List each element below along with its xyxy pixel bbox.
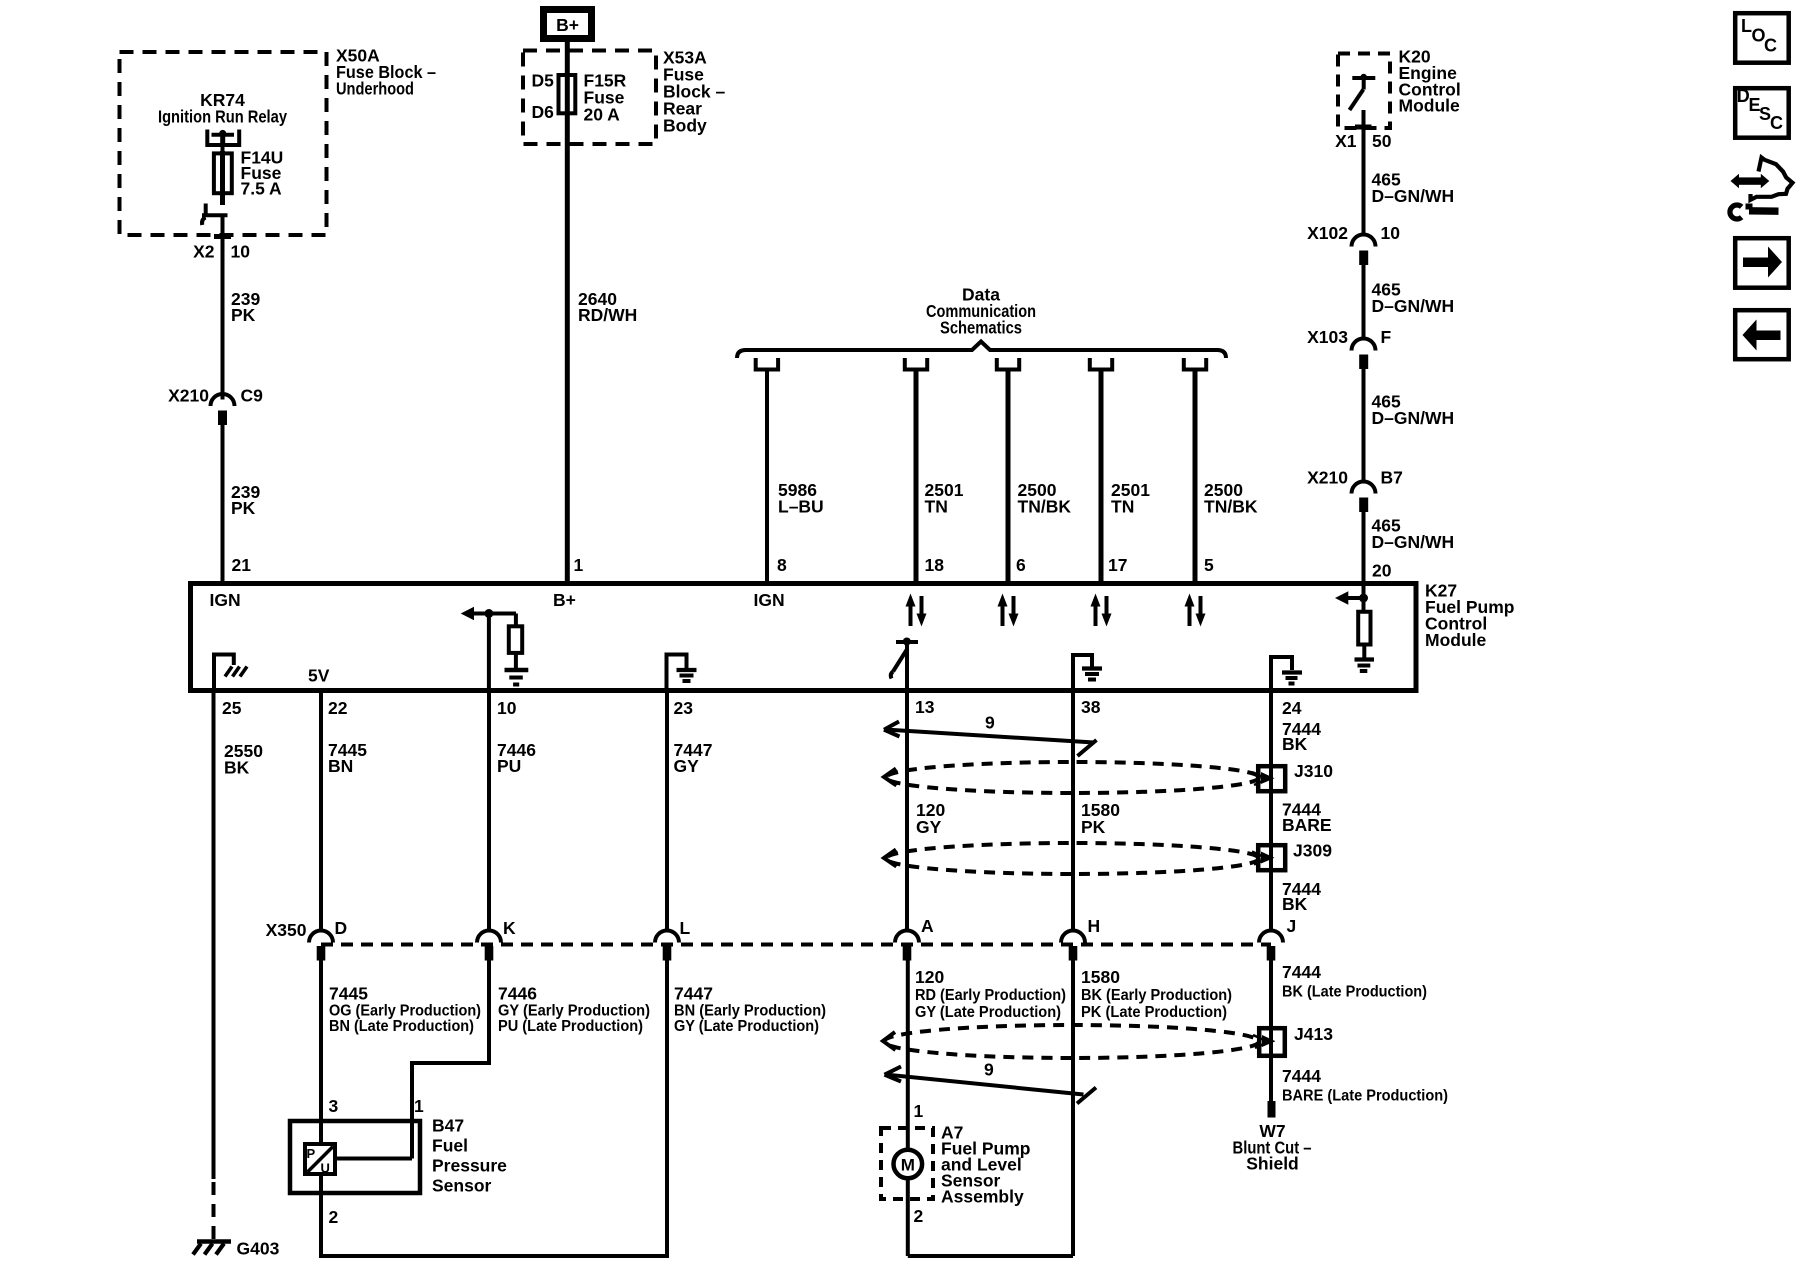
svg-text:9: 9 bbox=[984, 1060, 994, 1080]
relay KR74 contact (staple + armature) bbox=[207, 130, 239, 146]
wire L down to bottom joint bbox=[665, 961, 669, 1259]
svg-text:PK (Late Production): PK (Late Production) bbox=[1081, 1004, 1227, 1021]
fuse block X50A (dashed box) bbox=[120, 52, 327, 235]
label X50A Fuse Block - Underhood bbox=[336, 46, 436, 99]
svg-text:X2: X2 bbox=[193, 242, 215, 262]
svg-text:Module: Module bbox=[1425, 630, 1487, 650]
connector X350 pin L bbox=[655, 918, 691, 961]
connector X1 tick bbox=[1355, 125, 1372, 130]
svg-text:Underhood: Underhood bbox=[336, 79, 414, 99]
fuel pump assembly A7 dashed box bbox=[881, 1128, 933, 1199]
svg-text:25: 25 bbox=[222, 698, 242, 718]
label 1580 PK bbox=[1081, 800, 1120, 837]
label 2501 TN (second) bbox=[1111, 480, 1150, 517]
twisted pair loop to J309 bbox=[886, 843, 1259, 874]
svg-text:U: U bbox=[321, 1161, 330, 1176]
internal ground pin 23 bbox=[667, 655, 697, 691]
label 7444 BK (upper) bbox=[1282, 719, 1321, 754]
bus tap header pin 18 bbox=[905, 358, 927, 370]
svg-text:J: J bbox=[1287, 916, 1297, 936]
wire 2640 RD/WH bbox=[565, 42, 570, 583]
splice J309 bbox=[1252, 841, 1332, 871]
label 2550 BK bbox=[224, 741, 263, 778]
svg-text:BK: BK bbox=[1282, 894, 1308, 914]
connector X350 dashed line bbox=[321, 943, 1271, 947]
internal switch pin 13 bbox=[891, 638, 918, 691]
wire 7444 BK (pin 24) bbox=[1269, 693, 1273, 766]
wire 2500 TN/BK (pin 6) bbox=[1006, 370, 1011, 584]
svg-text:B+: B+ bbox=[553, 590, 576, 610]
svg-text:A: A bbox=[921, 916, 934, 936]
svg-text:B+: B+ bbox=[556, 15, 579, 35]
svg-text:Pressure: Pressure bbox=[432, 1156, 507, 1176]
label 7445 OG/BN production bbox=[329, 984, 481, 1036]
wire K jog to B47 pin 1 bbox=[412, 961, 489, 1122]
icon prev-page box (left arrow) bbox=[1735, 310, 1789, 359]
wire 7446 PU (pin 10) bbox=[487, 693, 491, 930]
wire through J413 bbox=[1269, 1028, 1273, 1058]
twisted pair left arrow (J310 loop) bbox=[884, 769, 897, 786]
svg-text:OG (Early Production): OG (Early Production) bbox=[329, 1003, 481, 1020]
fuse block X53A (dashed box) bbox=[523, 51, 656, 145]
switch contact of relay bbox=[202, 204, 228, 226]
svg-text:PK: PK bbox=[231, 305, 256, 325]
svg-text:10: 10 bbox=[497, 698, 517, 718]
svg-text:M: M bbox=[901, 1156, 915, 1175]
svg-text:7444: 7444 bbox=[1282, 1066, 1321, 1086]
internal wire B47 pin 1 bbox=[335, 1121, 412, 1159]
wire J below X350 bbox=[1269, 961, 1273, 1029]
wire 465 D-GN/WH segment 1 bbox=[1362, 110, 1366, 234]
svg-text:TN: TN bbox=[925, 497, 948, 517]
svg-text:L–BU: L–BU bbox=[778, 497, 824, 517]
svg-text:K: K bbox=[503, 918, 516, 938]
svg-text:H: H bbox=[1088, 916, 1101, 936]
svg-text:P: P bbox=[307, 1146, 316, 1161]
label 239 PK (lower) bbox=[231, 482, 260, 518]
wire J to blunt cut bbox=[1269, 1056, 1273, 1101]
label X53A Fuse Block - Rear Body bbox=[663, 48, 726, 136]
internal ground pin 24 bbox=[1271, 657, 1302, 690]
svg-text:18: 18 bbox=[925, 555, 945, 575]
connector X102 pin 10 bbox=[1307, 223, 1400, 265]
svg-text:2: 2 bbox=[914, 1206, 924, 1226]
svg-text:RD/WH: RD/WH bbox=[578, 305, 637, 325]
svg-text:BK: BK bbox=[1282, 734, 1308, 754]
svg-text:F: F bbox=[1381, 327, 1392, 347]
wire through J310 bbox=[1269, 766, 1273, 793]
svg-text:1: 1 bbox=[574, 555, 584, 575]
svg-text:BARE (Late Production): BARE (Late Production) bbox=[1282, 1088, 1448, 1105]
label A7 Fuel Pump and Level Sensor Assembly bbox=[941, 1123, 1030, 1207]
label B47 Fuel Pressure Sensor bbox=[432, 1116, 507, 1196]
svg-text:D6: D6 bbox=[532, 102, 555, 122]
icon vehicle outline bbox=[1751, 158, 1793, 200]
svg-text:J309: J309 bbox=[1293, 841, 1332, 861]
wire A to pump bbox=[906, 961, 910, 1151]
label 465 D-GN/WH (2) bbox=[1372, 280, 1455, 317]
bus tap header pin 17 bbox=[1090, 358, 1112, 370]
label 5986 L-BU bbox=[778, 480, 824, 517]
svg-text:Ignition Run Relay: Ignition Run Relay bbox=[158, 107, 287, 127]
twist symbol 9 (lower) bbox=[885, 1060, 1097, 1104]
wire 465 D-GN/WH segment 4 bbox=[1362, 512, 1366, 583]
label F15R Fuse 20 A bbox=[584, 71, 627, 125]
label K27 Fuel Pump Control Module bbox=[1425, 581, 1514, 651]
svg-text:C: C bbox=[1770, 113, 1783, 133]
label 2500 TN/BK bbox=[1018, 480, 1072, 517]
battery feed B+ box bbox=[544, 10, 592, 39]
bottom wire pump to wire H bbox=[908, 1254, 1073, 1258]
svg-text:PU (Late Production): PU (Late Production) bbox=[498, 1018, 643, 1035]
svg-text:J413: J413 bbox=[1294, 1024, 1333, 1044]
label Data Communication Schematics bbox=[926, 285, 1036, 338]
internal driver circuit pins 1/10 (arrow, resistor, ground) bbox=[461, 607, 529, 690]
svg-text:22: 22 bbox=[328, 698, 348, 718]
connector X210 pin B7 bbox=[1307, 468, 1403, 513]
svg-text:B7: B7 bbox=[1381, 468, 1403, 488]
twisted pair loop to J413 bbox=[884, 1025, 1259, 1058]
svg-text:GY: GY bbox=[674, 756, 700, 776]
svg-text:7446: 7446 bbox=[498, 984, 537, 1004]
wire 2501 TN (pin 18) bbox=[914, 370, 919, 584]
ECM driver symbol bbox=[1350, 74, 1376, 110]
twisted pair left arrow (J309 loop) bbox=[884, 850, 897, 867]
svg-text:D–GN/WH: D–GN/WH bbox=[1372, 186, 1455, 206]
svg-text:GY (Late Production): GY (Late Production) bbox=[674, 1018, 819, 1035]
svg-text:23: 23 bbox=[674, 698, 694, 718]
internal chassis ground pin 25 bbox=[214, 655, 247, 691]
svg-text:PK: PK bbox=[231, 498, 256, 518]
label 2501 TN bbox=[925, 480, 964, 517]
label 120 GY bbox=[916, 800, 945, 837]
svg-text:D: D bbox=[335, 918, 348, 938]
svg-text:D–GN/WH: D–GN/WH bbox=[1372, 296, 1455, 316]
svg-text:BN: BN bbox=[328, 756, 353, 776]
connector X350 pin H bbox=[1061, 916, 1100, 961]
ground G403 bbox=[193, 1239, 280, 1259]
fuel pressure sensor B47 box bbox=[290, 1121, 420, 1193]
icon LOC box bbox=[1735, 13, 1789, 63]
svg-text:PU: PU bbox=[497, 756, 521, 776]
svg-text:X102: X102 bbox=[1307, 223, 1348, 243]
label 7444 BK (Late Production) bbox=[1282, 962, 1427, 1001]
svg-text:IGN: IGN bbox=[210, 590, 241, 610]
svg-text:PK: PK bbox=[1081, 817, 1106, 837]
data bus brace bbox=[737, 342, 1226, 359]
bus tap header pin 6 bbox=[997, 358, 1019, 370]
svg-text:GY (Early Production): GY (Early Production) bbox=[498, 1003, 650, 1020]
svg-text:24: 24 bbox=[1282, 698, 1302, 718]
svg-text:10: 10 bbox=[1381, 223, 1401, 243]
svg-text:20: 20 bbox=[1372, 561, 1392, 581]
wire A7 pin 2 bbox=[906, 1179, 910, 1257]
svg-text:BK (Early Production): BK (Early Production) bbox=[1081, 987, 1232, 1004]
svg-text:8: 8 bbox=[777, 555, 787, 575]
engine control module K20 (dashed box) bbox=[1338, 54, 1390, 129]
wire H down bbox=[1071, 961, 1075, 1257]
label 1580 BK/PK production bbox=[1081, 967, 1232, 1021]
label 7446 GY/PU production bbox=[498, 984, 650, 1036]
label 7444 BARE (Late Production) bbox=[1282, 1066, 1448, 1105]
connector X210 C9 bbox=[168, 386, 263, 426]
label 7447 BN/GY production bbox=[674, 984, 826, 1036]
wire 465 D-GN/WH segment 2 bbox=[1362, 265, 1366, 338]
wire 7447 GY (pin 23) bbox=[665, 693, 669, 930]
pump motor M bbox=[894, 1150, 923, 1179]
bus tap header pin 5 bbox=[1184, 358, 1206, 370]
svg-text:7444: 7444 bbox=[1282, 962, 1321, 982]
labels D5 D6 bbox=[532, 71, 555, 123]
svg-text:D–GN/WH: D–GN/WH bbox=[1372, 408, 1455, 428]
svg-text:50: 50 bbox=[1372, 131, 1392, 151]
fuse F14U (rect with wire through) bbox=[214, 151, 232, 205]
sensor P/U symbol bbox=[305, 1144, 335, 1176]
svg-text:Module: Module bbox=[1399, 96, 1461, 116]
wire 120 GY (pin 13) bbox=[905, 693, 909, 930]
svg-text:Fuel: Fuel bbox=[432, 1136, 468, 1156]
svg-text:9: 9 bbox=[985, 713, 995, 733]
svg-text:TN/BK: TN/BK bbox=[1204, 497, 1258, 517]
svg-text:21: 21 bbox=[232, 555, 252, 575]
wire 239 PK lower segment bbox=[221, 425, 225, 583]
wire fuse to X2 bbox=[221, 215, 225, 240]
label 7444 BK (below J309) bbox=[1282, 879, 1321, 914]
wire J309 to X350 bbox=[1269, 874, 1273, 930]
internal ground pin 38 bbox=[1073, 655, 1102, 690]
label 7445 BN bbox=[328, 740, 367, 776]
connector X350 pin A bbox=[895, 916, 934, 961]
connector X103 pin F bbox=[1307, 327, 1391, 369]
icon DESC box bbox=[1735, 86, 1789, 138]
fuse F15R (rect) bbox=[559, 75, 576, 113]
svg-text:1580: 1580 bbox=[1081, 967, 1120, 987]
svg-text:20 A: 20 A bbox=[584, 105, 621, 125]
svg-text:IGN: IGN bbox=[754, 590, 785, 610]
connector X350 pin J bbox=[1259, 916, 1296, 961]
svg-text:Schematics: Schematics bbox=[940, 318, 1022, 338]
svg-text:BK (Late Production): BK (Late Production) bbox=[1282, 984, 1427, 1001]
internal bidirectional arrows pin 18 bbox=[906, 594, 927, 627]
icon next-page box (right arrow) bbox=[1735, 238, 1789, 288]
wire 465 D-GN/WH segment 3 bbox=[1362, 369, 1366, 481]
svg-text:X210: X210 bbox=[168, 386, 209, 406]
svg-text:D–GN/WH: D–GN/WH bbox=[1372, 532, 1455, 552]
svg-text:X350: X350 bbox=[266, 920, 307, 940]
svg-text:6: 6 bbox=[1016, 555, 1026, 575]
svg-text:D5: D5 bbox=[532, 71, 555, 91]
svg-text:1: 1 bbox=[414, 1096, 424, 1116]
label 465 D-GN/WH (1) bbox=[1372, 170, 1455, 207]
svg-text:TN: TN bbox=[1111, 497, 1134, 517]
svg-text:Sensor: Sensor bbox=[432, 1176, 492, 1196]
svg-text:L: L bbox=[1741, 16, 1752, 36]
splice J413 bbox=[1253, 1024, 1333, 1056]
svg-text:X210: X210 bbox=[1307, 468, 1348, 488]
label 239 PK (upper) bbox=[231, 289, 260, 325]
label K20 Engine Control Module bbox=[1399, 47, 1461, 116]
label relay KR74 bbox=[158, 90, 287, 127]
wire 2500 TN/BK (pin 5) bbox=[1193, 370, 1198, 584]
svg-text:5V: 5V bbox=[308, 666, 330, 686]
bottom pin number labels bbox=[222, 697, 1302, 718]
svg-text:1: 1 bbox=[914, 1101, 924, 1121]
label 2640 RD/WH bbox=[578, 289, 637, 325]
connector X350 pin K bbox=[477, 918, 516, 961]
svg-text:10: 10 bbox=[231, 242, 251, 262]
connector X2 pin 10 labels bbox=[193, 237, 250, 262]
svg-text:GY: GY bbox=[916, 817, 942, 837]
twist symbol 9 (upper) bbox=[884, 713, 1097, 757]
internal driver circuit pin 20 (arrow, resistor, ground) bbox=[1335, 586, 1374, 671]
label 7444 BARE bbox=[1282, 800, 1332, 836]
svg-text:G403: G403 bbox=[237, 1239, 280, 1259]
wire 7445 BN (pin 22) bbox=[319, 693, 323, 930]
svg-text:L: L bbox=[680, 918, 691, 938]
label W7 Blunt Cut - Shield bbox=[1233, 1121, 1312, 1174]
svg-text:120: 120 bbox=[915, 967, 944, 987]
blunt cut terminal W7 bbox=[1268, 1101, 1276, 1118]
svg-text:Body: Body bbox=[663, 116, 707, 136]
svg-text:X1: X1 bbox=[1335, 131, 1357, 151]
bottom wire pin2 to wire L bbox=[321, 1254, 667, 1258]
svg-text:J310: J310 bbox=[1294, 761, 1333, 781]
svg-text:BARE: BARE bbox=[1282, 815, 1332, 835]
svg-text:Assembly: Assembly bbox=[941, 1187, 1024, 1207]
internal bidirectional arrows pin 17 bbox=[1091, 594, 1112, 627]
twisted pair loop to J310 bbox=[886, 762, 1259, 793]
svg-text:7447: 7447 bbox=[674, 984, 713, 1004]
label 120 RD/GY production bbox=[915, 967, 1066, 1021]
bus tap header pin 8 bbox=[756, 358, 778, 370]
icon wrench bbox=[1730, 204, 1779, 220]
module K27 box bbox=[191, 584, 1417, 691]
svg-text:B47: B47 bbox=[432, 1116, 464, 1136]
svg-text:17: 17 bbox=[1108, 555, 1127, 575]
splice J310 bbox=[1252, 761, 1333, 791]
label X1 50 bbox=[1335, 131, 1392, 151]
wire through J309 bbox=[1269, 845, 1273, 874]
svg-text:BK: BK bbox=[224, 758, 250, 778]
label 465 D-GN/WH (4) bbox=[1372, 516, 1455, 553]
svg-text:X103: X103 bbox=[1307, 327, 1348, 347]
svg-text:GY (Late Production): GY (Late Production) bbox=[915, 1004, 1061, 1021]
wire D to B47 pin 3 bbox=[319, 961, 323, 1147]
svg-text:5: 5 bbox=[1204, 555, 1214, 575]
icon double arrow bbox=[1731, 174, 1770, 188]
svg-text:BN (Early Production): BN (Early Production) bbox=[674, 1003, 826, 1020]
wire 2550 BK (pin 25) bbox=[212, 693, 216, 1179]
label 465 D-GN/WH (3) bbox=[1372, 392, 1455, 429]
twisted pair left arrow (J413 loop) bbox=[883, 1032, 896, 1050]
wire 5986 L-BU bbox=[765, 370, 769, 584]
internal bidirectional arrows pin 5 bbox=[1185, 594, 1206, 627]
wire 239 PK upper segment bbox=[221, 240, 225, 400]
wire relay to fuse F14U bbox=[221, 145, 225, 155]
connector X350 pin D bbox=[309, 918, 347, 961]
svg-text:C: C bbox=[1764, 36, 1777, 56]
wire 2501 TN (pin 17) bbox=[1099, 370, 1104, 584]
wire 2550 BK dashed tail bbox=[212, 1182, 216, 1241]
svg-text:3: 3 bbox=[329, 1096, 339, 1116]
svg-text:38: 38 bbox=[1081, 697, 1101, 717]
wire J310 to J309 bbox=[1269, 793, 1273, 847]
svg-text:TN/BK: TN/BK bbox=[1018, 497, 1072, 517]
svg-text:7445: 7445 bbox=[329, 984, 368, 1004]
svg-text:2: 2 bbox=[329, 1207, 339, 1227]
svg-text:C9: C9 bbox=[241, 386, 264, 406]
svg-text:Shield: Shield bbox=[1246, 1154, 1299, 1174]
svg-text:13: 13 bbox=[915, 697, 935, 717]
svg-text:7.5 A: 7.5 A bbox=[241, 179, 283, 199]
label F14U Fuse 7.5 A bbox=[241, 148, 284, 199]
label 7447 GY bbox=[674, 740, 713, 776]
label 7446 PU bbox=[497, 740, 536, 776]
svg-text:RD (Early Production): RD (Early Production) bbox=[915, 987, 1066, 1004]
wire 1580 PK (pin 38) bbox=[1071, 693, 1075, 930]
internal bidirectional arrows pin 6 bbox=[998, 594, 1019, 627]
svg-text:BN (Late Production): BN (Late Production) bbox=[329, 1018, 474, 1035]
wire B47 pin 2 bbox=[319, 1174, 323, 1258]
label 2500 TN/BK (second) bbox=[1204, 480, 1258, 517]
